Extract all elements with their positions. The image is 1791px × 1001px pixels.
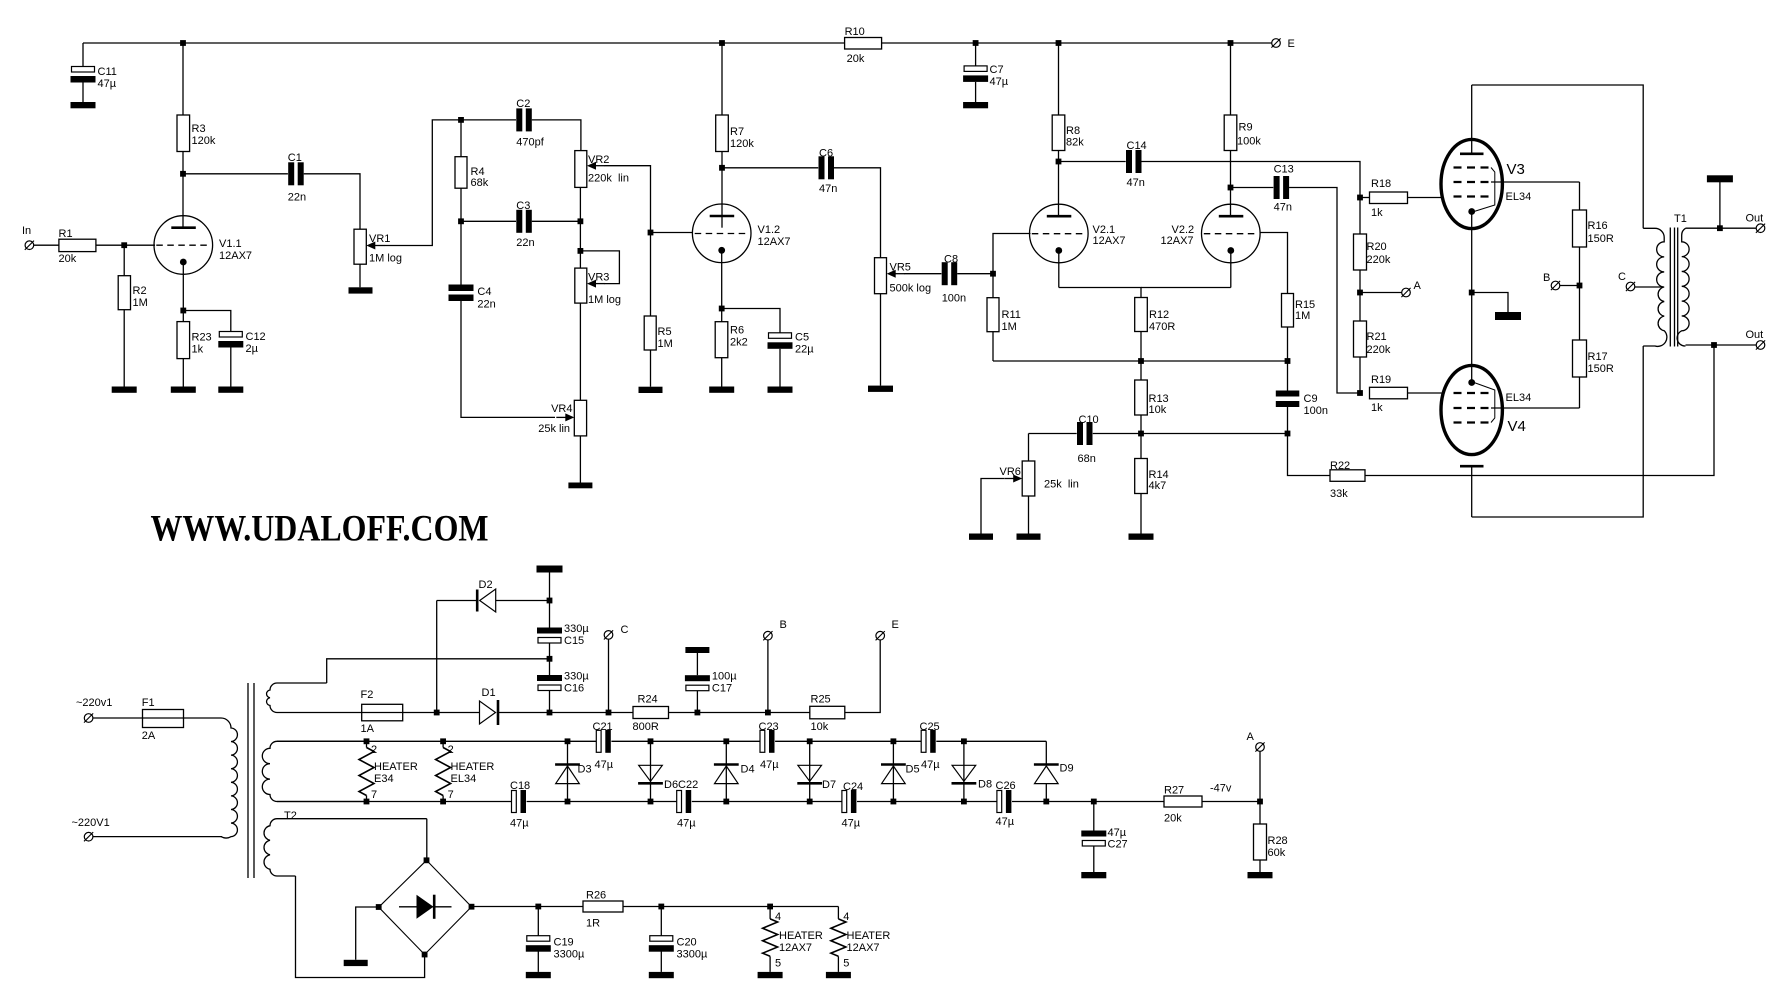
potentiometer VR4 — [574, 400, 586, 436]
wire C17 to line — [696, 691, 698, 713]
wire VR3 top loop — [580, 251, 619, 284]
V3 plate — [1471, 85, 1473, 153]
svg-text:C24: C24 — [843, 781, 863, 793]
capacitor C1 — [288, 162, 304, 186]
svg-text:R7: R7 — [730, 126, 744, 138]
wire rail to R8 — [1058, 43, 1060, 115]
junction V1.1 anode node — [180, 171, 186, 177]
svg-text:C4: C4 — [477, 286, 491, 298]
svg-text:A: A — [1247, 731, 1255, 743]
wire R11 to tail line — [992, 332, 994, 361]
wire B node to R25 — [768, 712, 810, 714]
resistor R27 — [1164, 796, 1202, 807]
ground under R28 — [1248, 872, 1273, 878]
V4 grid2 dashes — [1454, 407, 1492, 409]
VR1 wiper arrow — [373, 245, 384, 247]
V4 grid1 dashes — [1454, 392, 1492, 394]
wire LV top to bridge — [426, 819, 428, 861]
junction screen B node — [1577, 283, 1583, 289]
wire C4 to VR4 wiper — [461, 301, 555, 418]
diode D2 — [476, 590, 479, 612]
T2 LV winding — [264, 819, 427, 876]
svg-text:C14: C14 — [1127, 140, 1147, 152]
V4 g2 lead — [1491, 407, 1580, 409]
svg-text:C8: C8 — [944, 254, 958, 266]
svg-text:HEATER: HEATER — [451, 761, 495, 773]
svg-text:C13: C13 — [1274, 164, 1294, 176]
svg-text:D6C22: D6C22 — [664, 779, 698, 791]
wire cathode node to R23 — [182, 311, 184, 322]
resistor R5 — [644, 316, 656, 350]
svg-text:E: E — [1288, 38, 1295, 50]
junction V1.1 cathode node — [180, 308, 186, 314]
resistor R1 — [59, 239, 96, 251]
wire R5 to ground — [650, 350, 652, 387]
svg-text:150R: 150R — [1588, 233, 1614, 245]
svg-text:47µ: 47µ — [98, 78, 117, 90]
wire C2 to VR2 top — [532, 120, 581, 151]
svg-text:1M: 1M — [1002, 321, 1017, 333]
potentiometer VR2 — [575, 151, 587, 188]
wire In to R1 — [34, 244, 59, 246]
wire C19 stem — [537, 907, 539, 936]
junction D7 bottom — [807, 799, 813, 805]
svg-text:R1: R1 — [59, 228, 73, 240]
svg-text:Out: Out — [1746, 329, 1764, 341]
wire cathode node to C5 — [722, 309, 780, 333]
junction bias out A node — [1257, 799, 1263, 805]
wire tail line — [993, 360, 1288, 362]
svg-text:20k: 20k — [847, 53, 865, 65]
svg-text:C2: C2 — [516, 98, 530, 110]
wire V1.1 cathode down — [182, 262, 184, 311]
svg-text:470pf: 470pf — [516, 137, 544, 149]
resistor R2 — [118, 276, 130, 310]
resistor R23 — [177, 322, 190, 359]
triode V2.2 — [1202, 204, 1261, 263]
wire R2 to ground — [123, 310, 125, 387]
wire tail to R13 — [1140, 361, 1142, 380]
ground secondary top — [1707, 175, 1733, 182]
svg-text:2: 2 — [448, 744, 454, 756]
svg-text:1M log: 1M log — [588, 294, 621, 306]
wire VR2 wiper to V1.2 grid net — [605, 166, 651, 233]
svg-text:22µ: 22µ — [795, 344, 814, 356]
svg-text:12AX7: 12AX7 — [779, 942, 812, 954]
svg-text:2A: 2A — [142, 730, 156, 742]
junction secondary top — [1717, 225, 1723, 231]
wire R8 to anode node — [1058, 151, 1060, 162]
svg-text:120k: 120k — [730, 138, 754, 150]
capacitor C22 — [676, 790, 691, 814]
junction top rail at R9 — [1228, 40, 1234, 46]
svg-text:F1: F1 — [142, 697, 155, 709]
svg-text:R12: R12 — [1149, 309, 1169, 321]
wire anode node to V1.1 plate — [182, 174, 184, 228]
wire V1.2 cathode down — [721, 250, 723, 309]
wire V2.2 cathode down — [1230, 251, 1232, 288]
resistor R12 — [1135, 298, 1148, 332]
junction C supply node — [606, 710, 612, 716]
svg-text:E34: E34 — [374, 773, 394, 785]
svg-text:22n: 22n — [516, 237, 534, 249]
T2 HV winding — [267, 683, 362, 713]
svg-text:C5: C5 — [795, 332, 809, 344]
wire R7 to anode node — [721, 152, 723, 168]
terminal Out top — [1756, 224, 1765, 233]
svg-text:1M: 1M — [133, 297, 148, 309]
svg-text:R9: R9 — [1239, 122, 1253, 134]
junction D8 top — [961, 738, 967, 744]
capacitor C14 — [1126, 150, 1142, 174]
svg-text:C9: C9 — [1304, 393, 1318, 405]
svg-text:1M: 1M — [658, 338, 673, 350]
resistor R13 — [1135, 380, 1148, 415]
svg-text:22n: 22n — [477, 299, 495, 311]
wire V3 grid stopper input — [1360, 197, 1370, 199]
junction V3 grid column top — [1357, 195, 1363, 201]
wire VR5 wiper to C8 — [904, 273, 942, 275]
wire R6 to ground — [721, 358, 723, 387]
svg-text:47µ: 47µ — [1108, 827, 1127, 839]
wire C16 node to C node — [550, 712, 609, 714]
wire anode node to C13 — [1231, 187, 1274, 189]
svg-text:7: 7 — [448, 789, 454, 801]
wire anode node to V1.2 plate — [721, 168, 723, 228]
svg-text:C10: C10 — [1079, 414, 1099, 426]
resistor R21 — [1354, 321, 1367, 357]
resistor R16 — [1573, 210, 1587, 247]
wire VR5 to ground — [880, 294, 882, 386]
T2 core — [247, 683, 249, 878]
wire D6 column — [650, 741, 652, 801]
wire C17 node to B node — [697, 712, 768, 714]
svg-text:D7: D7 — [822, 779, 836, 791]
svg-text:R3: R3 — [192, 123, 206, 135]
V4 plate — [1460, 465, 1484, 468]
svg-text:In: In — [22, 225, 31, 237]
wire grid node to R2 — [123, 245, 125, 276]
svg-text:1k: 1k — [1371, 402, 1383, 414]
svg-text:500k log: 500k log — [890, 283, 932, 295]
svg-text:12AX7: 12AX7 — [847, 942, 880, 954]
wire V3 plate to T1 — [1472, 85, 1644, 228]
capacitor C13 — [1273, 176, 1289, 200]
potentiometer VR1 — [354, 229, 366, 264]
wire R27 to A node — [1202, 801, 1260, 803]
svg-text:12AX7: 12AX7 — [758, 236, 791, 248]
diode D4 — [714, 763, 739, 766]
svg-text:220k: 220k — [1367, 254, 1391, 266]
wire heater4 stubs — [837, 907, 839, 919]
svg-text:R27: R27 — [1164, 785, 1184, 797]
junction V1.2 grid node — [648, 230, 654, 236]
svg-text:R8: R8 — [1066, 125, 1080, 137]
junction F2 D1 D2 node — [434, 710, 440, 716]
svg-text:C27: C27 — [1108, 839, 1128, 851]
svg-text:R11: R11 — [1002, 309, 1021, 321]
svg-text:T2: T2 — [284, 810, 297, 822]
capacitor C2 — [516, 108, 532, 132]
junction V2.1 anode node — [1056, 159, 1062, 165]
resistor R26 — [583, 901, 623, 912]
wire R18 to V3 grid — [1408, 197, 1442, 199]
junction D4 top — [723, 738, 729, 744]
junction V1.1 grid node — [121, 242, 127, 248]
svg-text:C: C — [1618, 271, 1626, 283]
wire VR3 bottom to VR4 — [579, 303, 581, 400]
potentiometer VR5 — [875, 258, 887, 294]
wire R26 to C20 node — [623, 906, 661, 908]
svg-text:D5: D5 — [906, 764, 920, 776]
junction C15 C16 node — [547, 656, 553, 662]
capacitor C12 — [219, 332, 242, 338]
junction C19 node — [535, 904, 541, 910]
junction D5 top — [891, 738, 897, 744]
svg-text:4: 4 — [775, 911, 781, 923]
wire D8 column — [963, 741, 965, 801]
wire tail to C9 — [1287, 361, 1289, 391]
capacitor C18 — [511, 790, 526, 814]
ground under VR1 — [349, 287, 373, 293]
junction bridge left — [376, 904, 382, 910]
svg-text:D8: D8 — [978, 779, 992, 791]
diode D8 — [952, 765, 976, 781]
capacitor C3 — [516, 209, 532, 233]
wire R28 to ground — [1259, 860, 1261, 872]
wire VR1 to ground — [359, 264, 361, 287]
svg-text:D1: D1 — [482, 687, 496, 699]
svg-text:VR6: VR6 — [1000, 466, 1021, 478]
wire C3 node to C4 — [460, 221, 462, 285]
svg-text:100µ: 100µ — [712, 671, 737, 683]
wire R13 to NFB node — [1140, 415, 1142, 434]
V3 grid2 dashes — [1454, 181, 1492, 183]
resistor R28 — [1254, 824, 1267, 860]
wire C14 to V3 grid column — [1142, 162, 1361, 198]
svg-text:47µ: 47µ — [990, 76, 1009, 88]
wire VR1 wiper to tone stack — [384, 120, 461, 246]
junction heater2 bottom — [440, 799, 446, 805]
V3 cathode dot — [1468, 208, 1475, 215]
svg-text:T1: T1 — [1674, 213, 1687, 225]
wire cathode to ground stem — [1472, 293, 1508, 313]
svg-text:C18: C18 — [510, 780, 530, 792]
diode D5 — [881, 763, 906, 766]
ground under R14 — [1129, 534, 1154, 540]
svg-text:C6: C6 — [819, 148, 833, 160]
wire NFB line — [1029, 433, 1288, 435]
wire node to C2 — [461, 119, 516, 121]
svg-text:C23: C23 — [759, 721, 779, 733]
wire B node to terminal — [1560, 285, 1580, 287]
wire V2.2 grid — [1260, 233, 1288, 294]
svg-text:VR4: VR4 — [551, 403, 572, 415]
junction D6 bottom — [648, 799, 654, 805]
T2 heater winding — [262, 741, 366, 801]
junction V1.2 anode node — [719, 165, 725, 171]
wire D5 column — [892, 741, 894, 801]
heater resistor EL34 pair 1 — [359, 748, 374, 796]
junction tone stack input node — [458, 117, 464, 123]
junction V2.2 anode node — [1228, 185, 1234, 191]
capacitor C6 — [818, 156, 834, 180]
V4 g3-cathode strap — [1474, 383, 1495, 423]
svg-text:C11: C11 — [98, 66, 117, 78]
wire rail to R7 — [721, 43, 723, 115]
terminal B mid — [1551, 281, 1560, 290]
wire A node to R28 — [1259, 802, 1261, 825]
svg-text:C20: C20 — [677, 937, 697, 949]
svg-text:D9: D9 — [1060, 763, 1074, 775]
wire R24 to C17 node — [669, 712, 698, 714]
wire D3 column — [567, 741, 569, 801]
wire C12 to ground — [230, 348, 232, 387]
ground under heater4 — [826, 972, 851, 978]
ground output cathodes — [1495, 312, 1521, 320]
svg-text:EL34: EL34 — [1506, 392, 1532, 404]
wire C20 to ground — [660, 952, 662, 972]
ground under VR4 — [568, 483, 592, 489]
heater resistor 12AX7 2 — [831, 919, 846, 956]
ground bridge left — [344, 960, 368, 966]
wire V2.2 cathode to R12 — [1141, 287, 1231, 289]
ground under C20 — [649, 972, 674, 978]
wire C1 to VR1 — [304, 174, 360, 229]
svg-text:5: 5 — [775, 958, 781, 970]
wire R12 to tail line — [1140, 332, 1142, 362]
terminal In — [25, 241, 34, 250]
svg-text:68n: 68n — [1078, 453, 1096, 465]
wire R16 to B node — [1579, 247, 1581, 286]
svg-text:V3: V3 — [1507, 161, 1525, 178]
wire C11 to rail — [82, 43, 84, 67]
wire top supply rail E net — [83, 42, 1272, 44]
wire R9 to anode node — [1230, 151, 1232, 188]
fuse F2 — [362, 704, 403, 721]
VR3 wiper arrow — [594, 283, 605, 285]
wire D4 column — [725, 741, 727, 801]
capacitor C5 — [769, 333, 792, 339]
wire D2 node ground stem — [549, 572, 551, 600]
svg-text:10k: 10k — [811, 721, 829, 733]
wire LV bottom loop to bridge — [296, 876, 425, 978]
svg-text:4: 4 — [843, 911, 849, 923]
junction C16 bottom node — [547, 710, 553, 716]
svg-text:2: 2 — [371, 744, 377, 756]
wire C13 to V4 grid column — [1289, 188, 1360, 394]
junction bridge right — [469, 904, 475, 910]
terminal C mid — [1626, 282, 1635, 291]
svg-text:A: A — [1414, 280, 1422, 292]
junction VR2 VR3 node — [578, 248, 584, 254]
svg-text:EL34: EL34 — [1506, 191, 1532, 203]
svg-text:800R: 800R — [633, 721, 659, 733]
svg-text:V1.1: V1.1 — [219, 238, 242, 250]
wire rail to R9 — [1230, 43, 1232, 115]
svg-text:12AX7: 12AX7 — [219, 250, 252, 262]
svg-text:R16: R16 — [1588, 220, 1608, 232]
svg-text:470R: 470R — [1149, 321, 1175, 333]
VR2 wiper arrow — [594, 165, 605, 167]
terminal A mid — [1402, 288, 1411, 297]
triode V2.1 — [1030, 204, 1089, 263]
capacitor C20 — [650, 936, 673, 942]
svg-text:47µ: 47µ — [760, 759, 779, 771]
svg-text:HEATER: HEATER — [847, 930, 891, 942]
svg-text:47n: 47n — [1127, 177, 1145, 189]
resistor R24 — [633, 707, 669, 719]
ground above C17 — [685, 647, 709, 653]
junction C20 node — [658, 904, 664, 910]
terminal Out bottom — [1756, 341, 1765, 350]
wire C node to terminal — [608, 639, 610, 712]
junction heater3 top — [767, 904, 773, 910]
bridge inner diode — [399, 906, 452, 908]
V3 grid3 dashes — [1454, 166, 1492, 168]
junction top rail at V1.2/R7 — [719, 40, 725, 46]
svg-text:R21: R21 — [1367, 331, 1387, 343]
svg-text:82k: 82k — [1066, 137, 1084, 149]
svg-text:VR3: VR3 — [588, 272, 609, 284]
svg-text:R28: R28 — [1268, 835, 1288, 847]
resistor R19 — [1370, 387, 1408, 399]
junction tail at R12 — [1138, 358, 1144, 364]
wire R25 to E terminal — [845, 640, 880, 713]
ground under C11 — [71, 102, 96, 108]
wire V3 g2 to R16 — [1579, 182, 1581, 210]
junction D3 bottom — [565, 799, 571, 805]
wire C20 node to heaters — [661, 906, 838, 908]
VR5 wiper arrow — [894, 273, 905, 275]
capacitor C21 — [596, 729, 611, 753]
svg-text:25k lin: 25k lin — [1044, 479, 1079, 491]
svg-text:V4: V4 — [1508, 418, 1526, 435]
junction R4 C3 node — [458, 218, 464, 224]
svg-text:B: B — [1543, 272, 1550, 284]
svg-text:R22: R22 — [1330, 460, 1350, 472]
wire VR6 wiper to ground — [981, 479, 1004, 534]
svg-text:60k: 60k — [1268, 847, 1286, 859]
capacitor C26 — [997, 790, 1012, 814]
wire F2 to D1 node — [403, 712, 437, 714]
svg-text:1M log: 1M log — [369, 253, 402, 265]
ground under C27 — [1081, 872, 1106, 878]
svg-text:10k: 10k — [1149, 404, 1167, 416]
capacitor C15 — [537, 628, 562, 634]
svg-text:5: 5 — [843, 958, 849, 970]
svg-text:C7: C7 — [990, 64, 1004, 76]
wire anode node to C14 — [1059, 161, 1127, 163]
svg-text:1k: 1k — [192, 344, 204, 356]
junction V4 grid column — [1357, 390, 1363, 396]
svg-text:330µ: 330µ — [564, 623, 589, 635]
junction heater2 top — [440, 738, 446, 744]
wire V3 cathode down — [1471, 212, 1473, 293]
VR4 wiper arrow — [556, 416, 567, 418]
junction top rail at R8 — [1056, 40, 1062, 46]
capacitor C4 — [449, 285, 474, 292]
wire cathode node to R6 — [721, 309, 723, 322]
wire C11 to ground — [82, 83, 84, 103]
svg-text:C21: C21 — [593, 721, 613, 733]
wire node to C15 — [549, 601, 551, 628]
wire 220v bottom to T2 — [93, 836, 222, 838]
svg-text:12AX7: 12AX7 — [1161, 235, 1194, 247]
wire grid node to R11 — [992, 274, 994, 298]
wire R23 to ground — [182, 359, 184, 387]
junction NFB at R13 — [1138, 431, 1144, 437]
